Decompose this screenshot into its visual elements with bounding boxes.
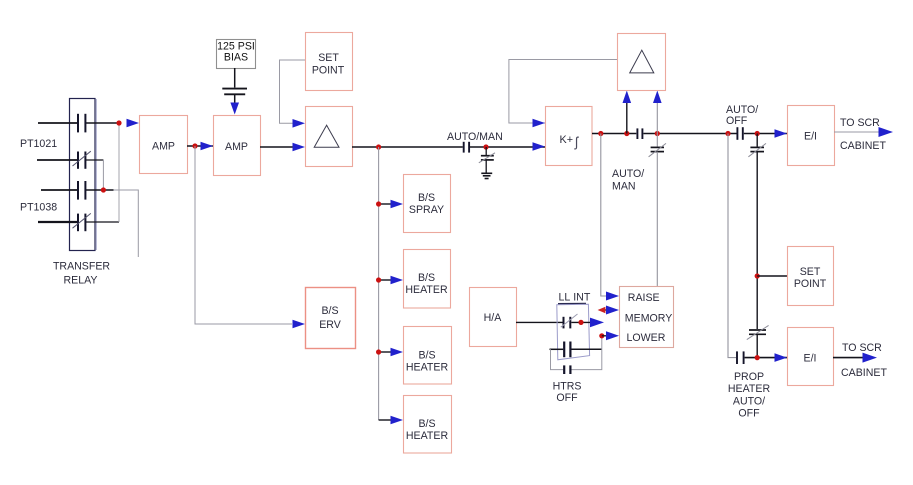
relay outline LL INT (hand drawn) xyxy=(557,303,590,360)
svg-text:PROP: PROP xyxy=(734,371,764,383)
wire SET POINT 1 to deviation amp xyxy=(280,60,306,123)
svg-text:MEMORY: MEMORY xyxy=(625,312,672,324)
node row3 junction xyxy=(101,187,106,192)
contact AUTO/OFF xyxy=(737,127,742,140)
label AUTO/MAN (second) xyxy=(612,168,644,192)
wire LOWER stub xyxy=(602,335,610,337)
node LOWER feed junction xyxy=(599,333,604,338)
node manual-station junction xyxy=(483,144,488,149)
svg-text:B/S: B/S xyxy=(418,418,435,430)
setpoint block SET POINT 2 xyxy=(788,247,834,306)
wire K+int output xyxy=(592,133,636,135)
converter E/I 1 xyxy=(788,106,835,166)
label TO SCR CABINET 1 xyxy=(840,117,886,152)
wire row 3 xyxy=(41,189,114,191)
svg-text:TO SCR: TO SCR xyxy=(840,117,880,129)
arrow into B/S HEATER 2 xyxy=(391,348,404,357)
node E/I 2 feed junction xyxy=(755,355,760,360)
wire branch to B/S HEATER 3 xyxy=(379,419,392,421)
svg-text:K+: K+ xyxy=(560,134,574,146)
svg-text:ERV: ERV xyxy=(319,319,342,331)
svg-text:H/A: H/A xyxy=(484,312,503,324)
ground below manual contact xyxy=(481,173,492,178)
contact HTRS OFF xyxy=(564,365,570,374)
wire B/S distribution bus xyxy=(378,147,380,420)
contact PROP HEATER AUTO/OFF xyxy=(737,351,744,364)
node AMP1 output junction xyxy=(192,143,197,148)
svg-text:BIAS: BIAS xyxy=(224,52,248,64)
capacitor bias coupling xyxy=(222,89,247,103)
arrow up into summing amp A2 xyxy=(623,91,632,104)
contact K1-2 (N.C. slashed) xyxy=(73,151,91,169)
svg-text:HEATER: HEATER xyxy=(406,361,449,373)
arrow into LOWER xyxy=(606,331,619,340)
arrow bias into AMP2 top xyxy=(230,103,239,115)
svg-text:LOWER: LOWER xyxy=(627,332,666,344)
label AUTO/OFF xyxy=(726,104,758,127)
wire A2 leg down to memory block top xyxy=(656,152,658,286)
wire contact to E/I 2 xyxy=(745,357,787,359)
svg-text:HTRS: HTRS xyxy=(553,380,582,392)
svg-text:RAISE: RAISE xyxy=(628,292,660,304)
svg-text:MAN: MAN xyxy=(612,181,636,193)
node row1 junction xyxy=(116,120,121,125)
svg-text:OFF: OFF xyxy=(556,392,578,404)
wire lower-int contact line xyxy=(550,348,602,350)
wire branch to B/S SPRAY xyxy=(379,203,392,205)
load block B/S HEATER 2 xyxy=(404,327,452,385)
node H/A line junction xyxy=(578,320,583,325)
wire up to summing amp A2 right leg xyxy=(656,102,658,134)
op-amp deviation amplifier A1 (triangle) xyxy=(306,107,353,167)
wire row2-to-row3 tie xyxy=(102,160,104,190)
wire branch to B/S HEATER 1 xyxy=(379,279,392,281)
wire memory transfer stub xyxy=(603,309,610,311)
wire contact to memory input xyxy=(571,321,591,323)
svg-text:HEATER: HEATER xyxy=(405,284,448,296)
wire contact to AUTO/OFF contact xyxy=(643,133,736,135)
wire PT1021 input row 1 xyxy=(38,122,119,124)
memory block RAISE/MEMORY/LOWER xyxy=(620,287,674,348)
arrow into K+int lower input xyxy=(533,142,546,151)
bias block 125 PSI BIAS xyxy=(217,40,256,69)
wire feedback from summing amp A2 to K+int upper input xyxy=(509,60,617,124)
contact LL INT (slashed) xyxy=(561,314,578,328)
capacitor slashed on prop heater line xyxy=(747,325,769,357)
load block B/S SPRAY xyxy=(404,175,451,233)
arrow into B/S HEATER 3 xyxy=(391,416,404,425)
label PROP HEATER AUTO/OFF xyxy=(728,371,771,420)
converter E/I 2 xyxy=(788,328,834,386)
arrow setpoint into deviation amp upper input xyxy=(293,119,306,128)
load block B/S HEATER 3 xyxy=(404,396,452,454)
svg-text:TO SCR: TO SCR xyxy=(842,342,882,354)
arrow into AMP1 xyxy=(127,119,140,128)
contact prop-heater release (N.C. slashed) below AUTO/OFF xyxy=(748,134,766,157)
arrow into B/S HEATER 1 xyxy=(391,276,404,285)
wire row 2 xyxy=(37,159,103,161)
svg-text:E/I: E/I xyxy=(804,131,817,143)
wire AUTO/OFF contact to E/I xyxy=(744,133,787,135)
contact K1-4 (N.C. slashed) xyxy=(73,213,91,231)
wire E/I 1 output xyxy=(834,131,880,133)
node branch 3 xyxy=(376,349,381,354)
node after AUTO/OFF contact xyxy=(755,131,760,136)
contact manual release (N.C. slashed) xyxy=(479,147,495,173)
wire deviation amp to AUTO/MAN contact xyxy=(352,146,463,148)
node branch 2 xyxy=(376,277,381,282)
svg-text:AMP: AMP xyxy=(225,141,248,153)
wire contact to K+int xyxy=(470,146,545,148)
arrow into RAISE xyxy=(606,292,619,301)
node branch 1 xyxy=(376,201,381,206)
svg-text:B/S: B/S xyxy=(418,192,435,204)
arrow into AMP2 xyxy=(201,142,214,151)
wire branch to B/S HEATER 2 xyxy=(379,351,392,353)
svg-text:B/S: B/S xyxy=(418,272,435,284)
wire htrs-off bypass loop xyxy=(551,336,602,370)
station block H/A xyxy=(470,288,517,347)
svg-text:OFF: OFF xyxy=(738,407,760,419)
wire bias to capacitor xyxy=(234,68,236,88)
svg-text:AUTO/: AUTO/ xyxy=(733,396,765,408)
contact track (capacitor style) xyxy=(637,128,642,139)
svg-text:POINT: POINT xyxy=(794,278,827,290)
svg-text:PT1038: PT1038 xyxy=(20,201,57,213)
svg-text:B/S: B/S xyxy=(321,305,338,317)
svg-text:SET: SET xyxy=(800,266,821,278)
svg-text:CABINET: CABINET xyxy=(841,367,887,379)
contact lower integral xyxy=(564,342,570,358)
arrow into E/I converter 1 xyxy=(775,129,788,138)
contact K1-3 (N.O.) xyxy=(78,181,85,200)
wire junction to SET POINT 2 xyxy=(757,275,787,277)
arrow into K+int upper input xyxy=(533,119,546,128)
svg-text:HEATER: HEATER xyxy=(728,383,771,395)
transfer relay box K1 xyxy=(70,99,97,251)
svg-text:CABINET: CABINET xyxy=(840,140,886,152)
svg-text:E/I: E/I xyxy=(804,353,817,365)
arrow toward MEMORY xyxy=(590,318,604,328)
controller K+integral xyxy=(546,107,593,166)
svg-text:HEATER: HEATER xyxy=(406,430,449,442)
wire junction down to B/S ERV xyxy=(195,146,292,324)
arrow memory in xyxy=(606,306,619,315)
svg-text:LL INT: LL INT xyxy=(559,291,591,303)
node before AUTO/OFF contact xyxy=(725,131,730,136)
svg-text:RELAY: RELAY xyxy=(64,274,98,286)
label HTRS OFF xyxy=(553,380,582,404)
arrow into B/S ERV xyxy=(293,320,306,329)
wire AMP2 to deviation amp xyxy=(260,146,293,148)
svg-text:POINT: POINT xyxy=(312,64,345,76)
op-amp summing amplifier A2 (triangle) xyxy=(618,34,666,91)
arrow memory out (red) xyxy=(598,307,606,313)
contact AUTO/MAN transfer xyxy=(464,142,469,153)
node track junction xyxy=(624,131,629,136)
arrow into deviation amp lower input xyxy=(293,143,306,152)
arrow into E/I converter 2 xyxy=(775,353,788,362)
amplifier AMP1 xyxy=(140,116,188,174)
node K+int output junction (to raise input) xyxy=(598,131,603,136)
svg-text:PT1021: PT1021 xyxy=(20,138,57,150)
node A2 right-leg junction xyxy=(655,131,660,136)
svg-text:SET: SET xyxy=(318,52,339,64)
wire K+int output down to RAISE input xyxy=(601,134,608,297)
arrow to SCR cabinet 2 xyxy=(863,353,878,363)
svg-text:AUTO/: AUTO/ xyxy=(612,168,644,180)
label TO SCR CABINET 2 xyxy=(841,342,887,379)
svg-text:B/S: B/S xyxy=(418,350,435,362)
label TRANSFER RELAY xyxy=(53,261,110,287)
arrow to SCR cabinet 1 xyxy=(879,127,894,137)
svg-text:SPRAY: SPRAY xyxy=(409,204,444,216)
load block B/S ERV xyxy=(306,288,356,349)
wire row3 stub to dangling drop xyxy=(114,190,139,257)
contact K1-1 (N.O.) xyxy=(78,114,85,133)
wire row 4 xyxy=(38,221,119,223)
node branch to B/S loads xyxy=(376,144,381,149)
arrow into B/S SPRAY xyxy=(391,200,404,209)
svg-text:AMP: AMP xyxy=(152,141,175,153)
arrow up into summing amp A2 right xyxy=(653,91,662,104)
wire H/A to LL INT contact xyxy=(516,321,563,323)
wire up to summing amp A2 left leg xyxy=(626,102,628,134)
wire AMP1 to AMP2 xyxy=(187,145,213,147)
svg-text:TRANSFER: TRANSFER xyxy=(53,261,110,273)
contact auto/man release (N.C. slashed) on A2 leg xyxy=(649,134,666,157)
wire E/I 2 output xyxy=(833,357,864,359)
node set point 2 junction xyxy=(755,273,760,278)
setpoint block SET POINT 1 xyxy=(306,33,353,91)
svg-text:125 PSI: 125 PSI xyxy=(217,40,255,52)
load block B/S HEATER 1 xyxy=(404,250,451,309)
svg-text:AUTO/MAN: AUTO/MAN xyxy=(447,131,503,143)
amplifier AMP2 xyxy=(214,116,261,176)
wire auto-line down to prop heater contact xyxy=(728,134,736,358)
svg-text:OFF: OFF xyxy=(726,115,748,127)
wire down to set point 2 junction xyxy=(756,152,758,329)
wire row1-to-row4 tie xyxy=(118,123,120,222)
